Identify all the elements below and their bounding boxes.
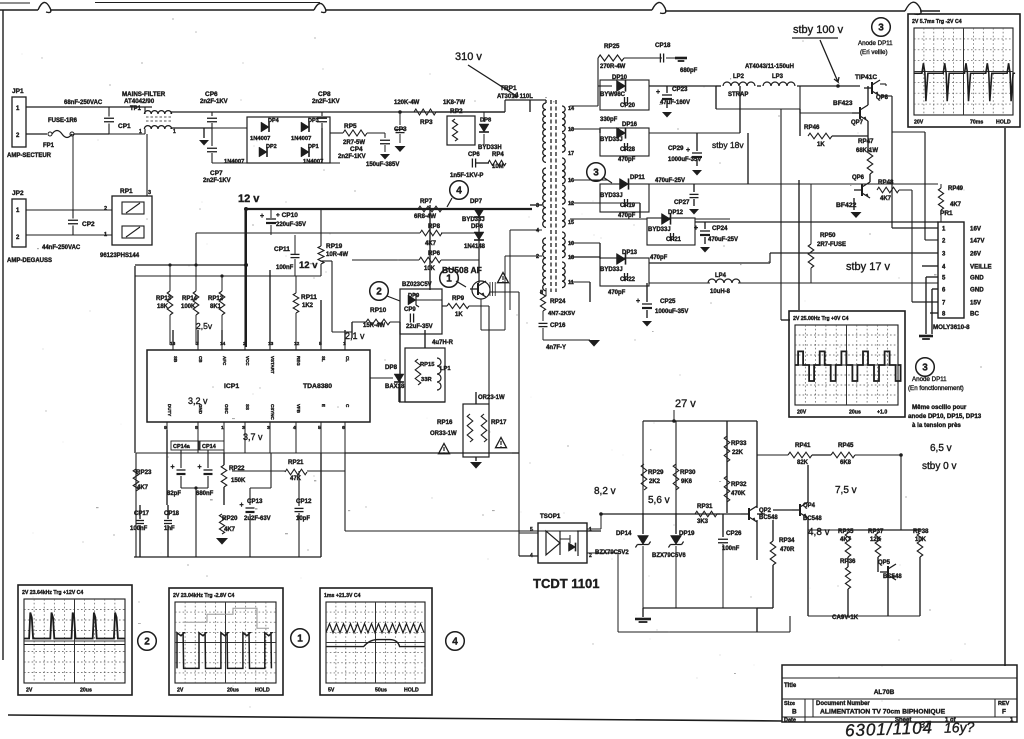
- svg-text:ICP1: ICP1: [224, 383, 239, 390]
- svg-text:47K: 47K: [290, 476, 302, 482]
- svg-text:15R-4W: 15R-4W: [363, 323, 385, 329]
- svg-text:1K: 1K: [817, 142, 825, 148]
- svg-text:10M: 10M: [492, 164, 504, 170]
- svg-text:CL: CL: [345, 356, 350, 362]
- svg-text:14: 14: [220, 341, 226, 347]
- svg-text:RP15: RP15: [420, 362, 435, 368]
- svg-text:AMP-SECTEUR: AMP-SECTEUR: [7, 153, 52, 159]
- svg-text:1N4007: 1N4007: [250, 136, 270, 142]
- svg-text:BYD33J: BYD33J: [648, 227, 671, 233]
- svg-text:RP38: RP38: [913, 528, 929, 535]
- svg-text:BYD33J: BYD33J: [600, 137, 623, 143]
- svg-text:1: 1: [104, 232, 107, 238]
- svg-text:2: 2: [536, 254, 539, 260]
- svg-text:STRAP: STRAP: [728, 92, 748, 98]
- svg-text:12 v: 12 v: [299, 260, 318, 271]
- svg-text:DP3: DP3: [308, 118, 319, 124]
- svg-text:DP9: DP9: [408, 293, 420, 299]
- svg-text:QP2: QP2: [759, 508, 772, 514]
- svg-text:470pF: 470pF: [650, 255, 668, 261]
- svg-text:5V: 5V: [328, 688, 335, 694]
- svg-text:RP31: RP31: [697, 503, 713, 510]
- svg-text:B: B: [792, 709, 797, 716]
- svg-text:8: 8: [195, 425, 198, 431]
- svg-text:15V: 15V: [970, 300, 982, 307]
- svg-text:RP30: RP30: [680, 469, 696, 476]
- svg-text:4K7: 4K7: [224, 527, 236, 533]
- svg-text:PR1: PR1: [940, 210, 953, 217]
- svg-text:RP33: RP33: [731, 440, 747, 447]
- svg-text:82K: 82K: [797, 460, 809, 466]
- svg-text:FUSE-1R6: FUSE-1R6: [48, 118, 78, 124]
- svg-text:QP6: QP6: [852, 175, 865, 181]
- svg-text:RP41: RP41: [795, 442, 811, 449]
- svg-text:CP18: CP18: [164, 511, 180, 517]
- svg-text:LP3: LP3: [772, 74, 784, 80]
- svg-text:2n2F-1KV: 2n2F-1KV: [200, 99, 228, 105]
- svg-text:5,6 v: 5,6 v: [648, 495, 670, 506]
- svg-text:1n5F-1KV-P: 1n5F-1KV-P: [450, 173, 483, 179]
- svg-text:50us: 50us: [375, 688, 387, 694]
- svg-text:RP29: RP29: [648, 469, 664, 476]
- svg-text:16: 16: [568, 178, 574, 184]
- svg-text:3: 3: [878, 23, 884, 34]
- svg-text:CP12: CP12: [296, 498, 312, 505]
- svg-text:1: 1: [139, 129, 142, 135]
- svg-text:147V: 147V: [970, 238, 985, 245]
- svg-text:CP26: CP26: [726, 530, 742, 537]
- svg-text:15: 15: [568, 220, 574, 226]
- svg-text:RP3: RP3: [420, 119, 433, 126]
- svg-text:DP16: DP16: [622, 122, 638, 128]
- svg-text:CA9V-1K: CA9V-1K: [832, 614, 859, 621]
- svg-text:47uF-160V: 47uF-160V: [660, 100, 690, 106]
- svg-text:(En fonctionnement): (En fonctionnement): [908, 385, 964, 392]
- svg-text:CP24: CP24: [712, 225, 728, 232]
- svg-text:20us: 20us: [80, 688, 92, 694]
- svg-text:BYD33J: BYD33J: [600, 193, 623, 199]
- svg-text:4n7F-Y: 4n7F-Y: [546, 345, 566, 351]
- svg-text:1K8-7W: 1K8-7W: [443, 100, 465, 106]
- svg-text:VCC: VCC: [245, 356, 250, 366]
- svg-text:22uF-35V: 22uF-35V: [406, 324, 433, 330]
- svg-text:2,5v: 2,5v: [196, 321, 213, 331]
- svg-text:AL70B: AL70B: [874, 689, 895, 696]
- svg-text:CP17: CP17: [134, 511, 150, 517]
- svg-text:1: 1: [446, 274, 452, 285]
- svg-text:TRP1: TRP1: [500, 85, 517, 92]
- svg-text:3: 3: [922, 363, 928, 374]
- svg-text:OR33-1W: OR33-1W: [430, 431, 457, 437]
- svg-text:10R-4W: 10R-4W: [326, 252, 348, 258]
- svg-text:TCDT 1101: TCDT 1101: [533, 576, 599, 591]
- svg-text:3T: 3T: [920, 719, 932, 729]
- svg-text:6R8-4W: 6R8-4W: [414, 214, 436, 220]
- svg-text:à la tension près: à la tension près: [912, 422, 961, 429]
- svg-text:44nF-250VAC: 44nF-250VAC: [42, 245, 81, 251]
- svg-text:stby 17 v: stby 17 v: [846, 261, 891, 273]
- svg-text:AT3010 110L: AT3010 110L: [497, 94, 533, 100]
- svg-text:4K7: 4K7: [840, 537, 852, 543]
- svg-text:QP4: QP4: [803, 503, 816, 509]
- svg-text:+: +: [686, 147, 690, 154]
- svg-text:Size: Size: [784, 701, 795, 707]
- svg-text:2: 2: [589, 553, 592, 559]
- svg-text:GND: GND: [970, 275, 984, 282]
- svg-text:2R7-FUSE: 2R7-FUSE: [817, 242, 846, 248]
- svg-text:70ms: 70ms: [970, 120, 983, 126]
- svg-text:18: 18: [568, 255, 574, 261]
- svg-text:AT4042/90: AT4042/90: [124, 98, 155, 105]
- svg-text:+: +: [694, 225, 698, 232]
- svg-text:CP29: CP29: [668, 145, 684, 152]
- svg-text:4: 4: [293, 425, 296, 431]
- svg-text:470R: 470R: [780, 547, 795, 553]
- svg-text:SL: SL: [321, 356, 326, 362]
- svg-text:1K: 1K: [455, 312, 463, 318]
- svg-text:BYD33H: BYD33H: [478, 145, 502, 151]
- svg-text:CP14a: CP14a: [173, 444, 191, 450]
- svg-text:1: 1: [297, 634, 303, 645]
- svg-text:RP25: RP25: [604, 43, 620, 50]
- svg-text:20us: 20us: [849, 410, 861, 416]
- svg-text:DP7: DP7: [470, 198, 483, 205]
- svg-text:3: 3: [242, 425, 245, 431]
- svg-text:SB: SB: [173, 356, 178, 363]
- svg-text:RP9: RP9: [452, 295, 465, 302]
- svg-text:2: 2: [376, 287, 382, 298]
- svg-text:RP19: RP19: [326, 243, 343, 250]
- svg-text:5: 5: [318, 425, 321, 431]
- svg-text:TDA8380: TDA8380: [303, 383, 332, 390]
- svg-text:6,5 v: 6,5 v: [930, 443, 952, 454]
- svg-text:7,5 v: 7,5 v: [835, 485, 857, 496]
- svg-text:12: 12: [568, 201, 574, 207]
- svg-text:1: 1: [221, 425, 224, 431]
- svg-text:BC: BC: [970, 311, 979, 318]
- svg-text:RP46: RP46: [804, 124, 820, 131]
- svg-text:DP12: DP12: [668, 210, 684, 216]
- svg-text:Title: Title: [784, 683, 797, 689]
- svg-text:E: E: [321, 404, 326, 407]
- svg-text:CP23: CP23: [672, 86, 688, 93]
- svg-text:20V: 20V: [914, 120, 924, 126]
- svg-text:+: +: [171, 464, 175, 471]
- svg-text:LP4: LP4: [715, 273, 727, 279]
- svg-text:33R: 33R: [421, 377, 432, 383]
- svg-text:2V: 2V: [26, 688, 33, 694]
- svg-text:CP2: CP2: [82, 221, 95, 228]
- svg-text:2V: 2V: [177, 688, 184, 694]
- svg-text:CP9: CP9: [404, 307, 416, 313]
- svg-text:100nF: 100nF: [130, 526, 148, 532]
- svg-text:CSYNC: CSYNC: [270, 404, 275, 421]
- svg-text:+ CP10: + CP10: [276, 212, 298, 219]
- svg-text:Même oscillo pour: Même oscillo pour: [912, 404, 967, 411]
- svg-text:4K7: 4K7: [425, 241, 437, 247]
- svg-text:VFB: VFB: [296, 404, 301, 414]
- svg-text:120K-4W: 120K-4W: [394, 100, 420, 106]
- svg-text:BAX18: BAX18: [385, 384, 405, 390]
- svg-text:DP2: DP2: [266, 144, 277, 150]
- svg-text:stby 18v: stby 18v: [712, 140, 744, 150]
- svg-text:CP7: CP7: [210, 170, 223, 177]
- svg-text:TP1: TP1: [130, 106, 142, 112]
- svg-text:16у?: 16у?: [944, 719, 975, 736]
- svg-text:3: 3: [148, 190, 151, 196]
- svg-text:QP5: QP5: [878, 560, 891, 566]
- svg-text:330pF: 330pF: [600, 117, 618, 123]
- svg-text:DUTY: DUTY: [167, 404, 172, 416]
- svg-text:1ms +21.3V C4: 1ms +21.3V C4: [324, 593, 361, 599]
- svg-text:20V: 20V: [797, 410, 807, 416]
- svg-text:BZX79C5V6: BZX79C5V6: [652, 553, 686, 559]
- svg-text:2u2F-63V: 2u2F-63V: [244, 516, 271, 522]
- svg-text:BC548: BC548: [759, 515, 778, 521]
- svg-text:1: 1: [173, 129, 176, 135]
- svg-text:1N4148: 1N4148: [464, 244, 486, 250]
- svg-text:22K: 22K: [732, 450, 744, 456]
- svg-text:HOLD: HOLD: [996, 120, 1011, 126]
- svg-text:150K: 150K: [231, 478, 246, 484]
- svg-text:+1.0: +1.0: [877, 410, 887, 416]
- svg-text:DP6: DP6: [471, 223, 484, 230]
- svg-text:1nF: 1nF: [164, 526, 175, 532]
- svg-text:CP25: CP25: [660, 298, 676, 305]
- svg-text:2n2F-1KV: 2n2F-1KV: [203, 178, 231, 184]
- svg-text:3: 3: [267, 425, 270, 431]
- svg-text:14: 14: [568, 106, 575, 112]
- svg-text:AT4043/11-150uH: AT4043/11-150uH: [745, 64, 794, 70]
- svg-text:GND: GND: [970, 287, 984, 294]
- svg-text:4K7: 4K7: [950, 202, 962, 208]
- svg-text:CP8: CP8: [318, 91, 331, 98]
- svg-text:6K8: 6K8: [840, 460, 852, 466]
- svg-text:RP10: RP10: [370, 307, 387, 314]
- svg-text:10K: 10K: [915, 537, 927, 543]
- svg-text:Document Number: Document Number: [816, 701, 870, 707]
- svg-text:Anode DP11: Anode DP11: [858, 40, 893, 47]
- svg-text:RP32: RP32: [731, 481, 747, 488]
- svg-text:HOLD: HOLD: [404, 688, 419, 694]
- svg-text:4K7: 4K7: [880, 196, 892, 202]
- svg-text:MAINS-FILTER: MAINS-FILTER: [122, 91, 166, 98]
- svg-text:DP8: DP8: [480, 118, 492, 124]
- svg-text:470K: 470K: [731, 491, 746, 497]
- svg-text:+: +: [636, 298, 640, 305]
- svg-text:REG: REG: [296, 356, 301, 366]
- svg-text:TIP41C: TIP41C: [855, 74, 877, 81]
- svg-text:CP18: CP18: [655, 42, 671, 49]
- svg-text:F: F: [1002, 709, 1006, 716]
- svg-text:12: 12: [294, 341, 300, 347]
- svg-text:3,7 v: 3,7 v: [243, 432, 263, 442]
- svg-text:+: +: [656, 89, 660, 96]
- svg-text:9K6: 9K6: [681, 479, 693, 485]
- svg-text:150uF-385V: 150uF-385V: [366, 162, 399, 168]
- svg-text:2n2F-1KV: 2n2F-1KV: [338, 154, 366, 160]
- svg-text:JP2: JP2: [12, 190, 24, 197]
- svg-text:4,8 v: 4,8 v: [808, 527, 830, 538]
- svg-text:DP13: DP13: [622, 250, 638, 256]
- svg-text:27 v: 27 v: [675, 398, 696, 410]
- svg-text:ALIMENTATION TV 70cm BIPHONIQU: ALIMENTATION TV 70cm BIPHONIQUE: [820, 709, 946, 716]
- svg-text:SS: SS: [245, 404, 250, 410]
- svg-text:1: 1: [589, 527, 592, 533]
- svg-text:2: 2: [144, 637, 150, 648]
- svg-text:68nF-250VAC: 68nF-250VAC: [64, 100, 103, 106]
- svg-text:RP47: RP47: [858, 138, 874, 145]
- svg-text:DP19: DP19: [679, 530, 695, 537]
- svg-text:1N4007: 1N4007: [291, 136, 311, 142]
- svg-text:OR23-1W: OR23-1W: [478, 395, 505, 401]
- svg-text:DP8: DP8: [385, 364, 398, 371]
- svg-text:RP5: RP5: [344, 123, 357, 130]
- svg-text:AMP-DEGAUSS: AMP-DEGAUSS: [7, 258, 52, 264]
- svg-text:11: 11: [568, 280, 574, 286]
- svg-text:BF423: BF423: [833, 100, 853, 107]
- svg-text:CP13: CP13: [247, 498, 263, 505]
- svg-text:4N7-2K5V: 4N7-2K5V: [548, 311, 575, 317]
- svg-text:3: 3: [593, 168, 599, 179]
- svg-text:CP16: CP16: [550, 322, 566, 329]
- svg-text:2,1 v: 2,1 v: [345, 331, 365, 341]
- svg-text:RP16: RP16: [437, 419, 453, 426]
- svg-text:REV: REV: [998, 701, 1010, 707]
- svg-text:680pF: 680pF: [680, 68, 698, 74]
- svg-text:CP6: CP6: [205, 91, 218, 98]
- svg-text:QP7: QP7: [851, 120, 864, 126]
- svg-text:RP49: RP49: [948, 186, 964, 192]
- svg-text:DP1: DP1: [308, 144, 319, 150]
- svg-text:BYD33J: BYD33J: [600, 267, 623, 273]
- svg-text:RP21: RP21: [288, 459, 304, 466]
- svg-text:13: 13: [268, 341, 274, 347]
- svg-text:FP1: FP1: [43, 143, 55, 149]
- svg-text:26V: 26V: [970, 251, 982, 258]
- svg-text:VEILLE: VEILLE: [970, 264, 992, 271]
- svg-text:+: +: [198, 464, 202, 471]
- svg-text:DP14: DP14: [616, 530, 632, 537]
- svg-text:RP34: RP34: [779, 537, 795, 544]
- svg-text:10: 10: [568, 241, 574, 247]
- svg-text:RP4: RP4: [492, 152, 504, 158]
- svg-text:TSOP1: TSOP1: [540, 513, 561, 520]
- svg-text:2V 23.04kHz Trg -2.8V C4: 2V 23.04kHz Trg -2.8V C4: [173, 593, 235, 599]
- svg-text:4u7H-R: 4u7H-R: [432, 340, 454, 346]
- svg-text:17: 17: [568, 151, 574, 157]
- svg-text:RP45: RP45: [838, 442, 854, 449]
- svg-text:CB: CB: [198, 356, 203, 363]
- svg-text:12K: 12K: [870, 537, 882, 543]
- svg-text:100nF: 100nF: [722, 546, 740, 552]
- svg-text:470pF: 470pF: [618, 157, 636, 163]
- svg-text:2V 25.00Hz Trg +0V C4: 2V 25.00Hz Trg +0V C4: [793, 316, 849, 322]
- svg-text:CP14: CP14: [202, 444, 217, 450]
- svg-text:CP27: CP27: [674, 199, 690, 206]
- svg-text:470pF: 470pF: [608, 290, 626, 296]
- svg-text:LP1: LP1: [440, 366, 451, 372]
- svg-text:LP2: LP2: [733, 74, 745, 80]
- svg-text:BYW98C: BYW98C: [600, 92, 626, 98]
- svg-text:anode DP10, DP15, DP13: anode DP10, DP15, DP13: [908, 413, 982, 420]
- svg-text:3K3: 3K3: [697, 519, 709, 525]
- svg-text:VSTART: VSTART: [270, 356, 275, 374]
- svg-text:BZ023C5V: BZ023C5V: [402, 282, 432, 288]
- svg-text:270R-4W: 270R-4W: [600, 64, 626, 70]
- svg-text:RP35: RP35: [838, 528, 854, 535]
- svg-text:RP37: RP37: [868, 528, 884, 535]
- svg-text:MOLY3610-8: MOLY3610-8: [933, 324, 970, 331]
- svg-text:CP11: CP11: [274, 246, 290, 253]
- svg-text:470uF-25V: 470uF-25V: [708, 237, 738, 243]
- svg-text:68K-1W: 68K-1W: [856, 148, 878, 154]
- svg-text:8,2 v: 8,2 v: [594, 486, 616, 497]
- svg-text:stby 0 v: stby 0 v: [922, 461, 956, 472]
- svg-text:470uF-25V: 470uF-25V: [655, 178, 685, 184]
- svg-text:BC548: BC548: [803, 516, 822, 522]
- svg-text:310 v: 310 v: [455, 51, 482, 63]
- svg-text:4: 4: [456, 186, 462, 197]
- svg-text:680nF: 680nF: [196, 491, 214, 497]
- svg-text:2V 5.7ms Trg -2V C4: 2V 5.7ms Trg -2V C4: [912, 19, 962, 25]
- svg-text:stby 100 v: stby 100 v: [793, 24, 844, 36]
- svg-text:10uH-8: 10uH-8: [710, 289, 731, 295]
- svg-text:12 v: 12 v: [238, 193, 260, 205]
- svg-text:3,2 v: 3,2 v: [188, 396, 208, 406]
- svg-text:CP6: CP6: [468, 152, 480, 158]
- svg-text:1N4007: 1N4007: [303, 159, 323, 165]
- svg-text:HOLD: HOLD: [255, 688, 270, 694]
- svg-text:CP1: CP1: [118, 123, 131, 130]
- svg-text:1N4007: 1N4007: [224, 159, 244, 165]
- svg-text:RP50: RP50: [820, 232, 836, 239]
- svg-text:3: 3: [536, 203, 539, 209]
- svg-text:RP11: RP11: [301, 294, 317, 301]
- svg-text:RP48: RP48: [878, 179, 894, 186]
- svg-text:RP17: RP17: [491, 419, 507, 426]
- svg-text:OSC: OSC: [224, 404, 229, 415]
- svg-text:DP11: DP11: [630, 175, 645, 181]
- svg-text:+: +: [260, 213, 264, 220]
- svg-text:JP1: JP1: [12, 88, 24, 95]
- svg-text:470pF: 470pF: [618, 213, 636, 219]
- svg-text:16V: 16V: [970, 226, 982, 233]
- svg-text:4: 4: [452, 637, 458, 648]
- svg-text:Anode DP11: Anode DP11: [912, 376, 947, 383]
- svg-text:CP4: CP4: [350, 146, 363, 153]
- svg-text:RP7: RP7: [420, 198, 433, 205]
- svg-text:AFC: AFC: [222, 356, 227, 366]
- svg-text:2n2F-1KV: 2n2F-1KV: [312, 99, 340, 105]
- svg-text:220uF-35V: 220uF-35V: [276, 222, 306, 228]
- svg-text:10pF: 10pF: [296, 516, 310, 522]
- svg-text:2V 23.64kHz Trg +12V C4: 2V 23.64kHz Trg +12V C4: [22, 590, 83, 596]
- svg-text:(En veille): (En veille): [860, 49, 888, 56]
- svg-text:Date: Date: [784, 718, 796, 724]
- svg-text:2K2: 2K2: [649, 479, 661, 485]
- svg-text:BC548: BC548: [883, 574, 902, 580]
- svg-text:2: 2: [104, 206, 107, 212]
- svg-text:82pF: 82pF: [167, 491, 181, 497]
- svg-text:20us: 20us: [227, 688, 239, 694]
- svg-text:1K2: 1K2: [302, 303, 314, 309]
- svg-text:RP24: RP24: [550, 298, 566, 305]
- svg-text:96123PHS144: 96123PHS144: [100, 253, 140, 259]
- svg-text:6: 6: [342, 425, 345, 431]
- svg-text:+: +: [240, 502, 244, 509]
- svg-text:100nF: 100nF: [276, 265, 294, 271]
